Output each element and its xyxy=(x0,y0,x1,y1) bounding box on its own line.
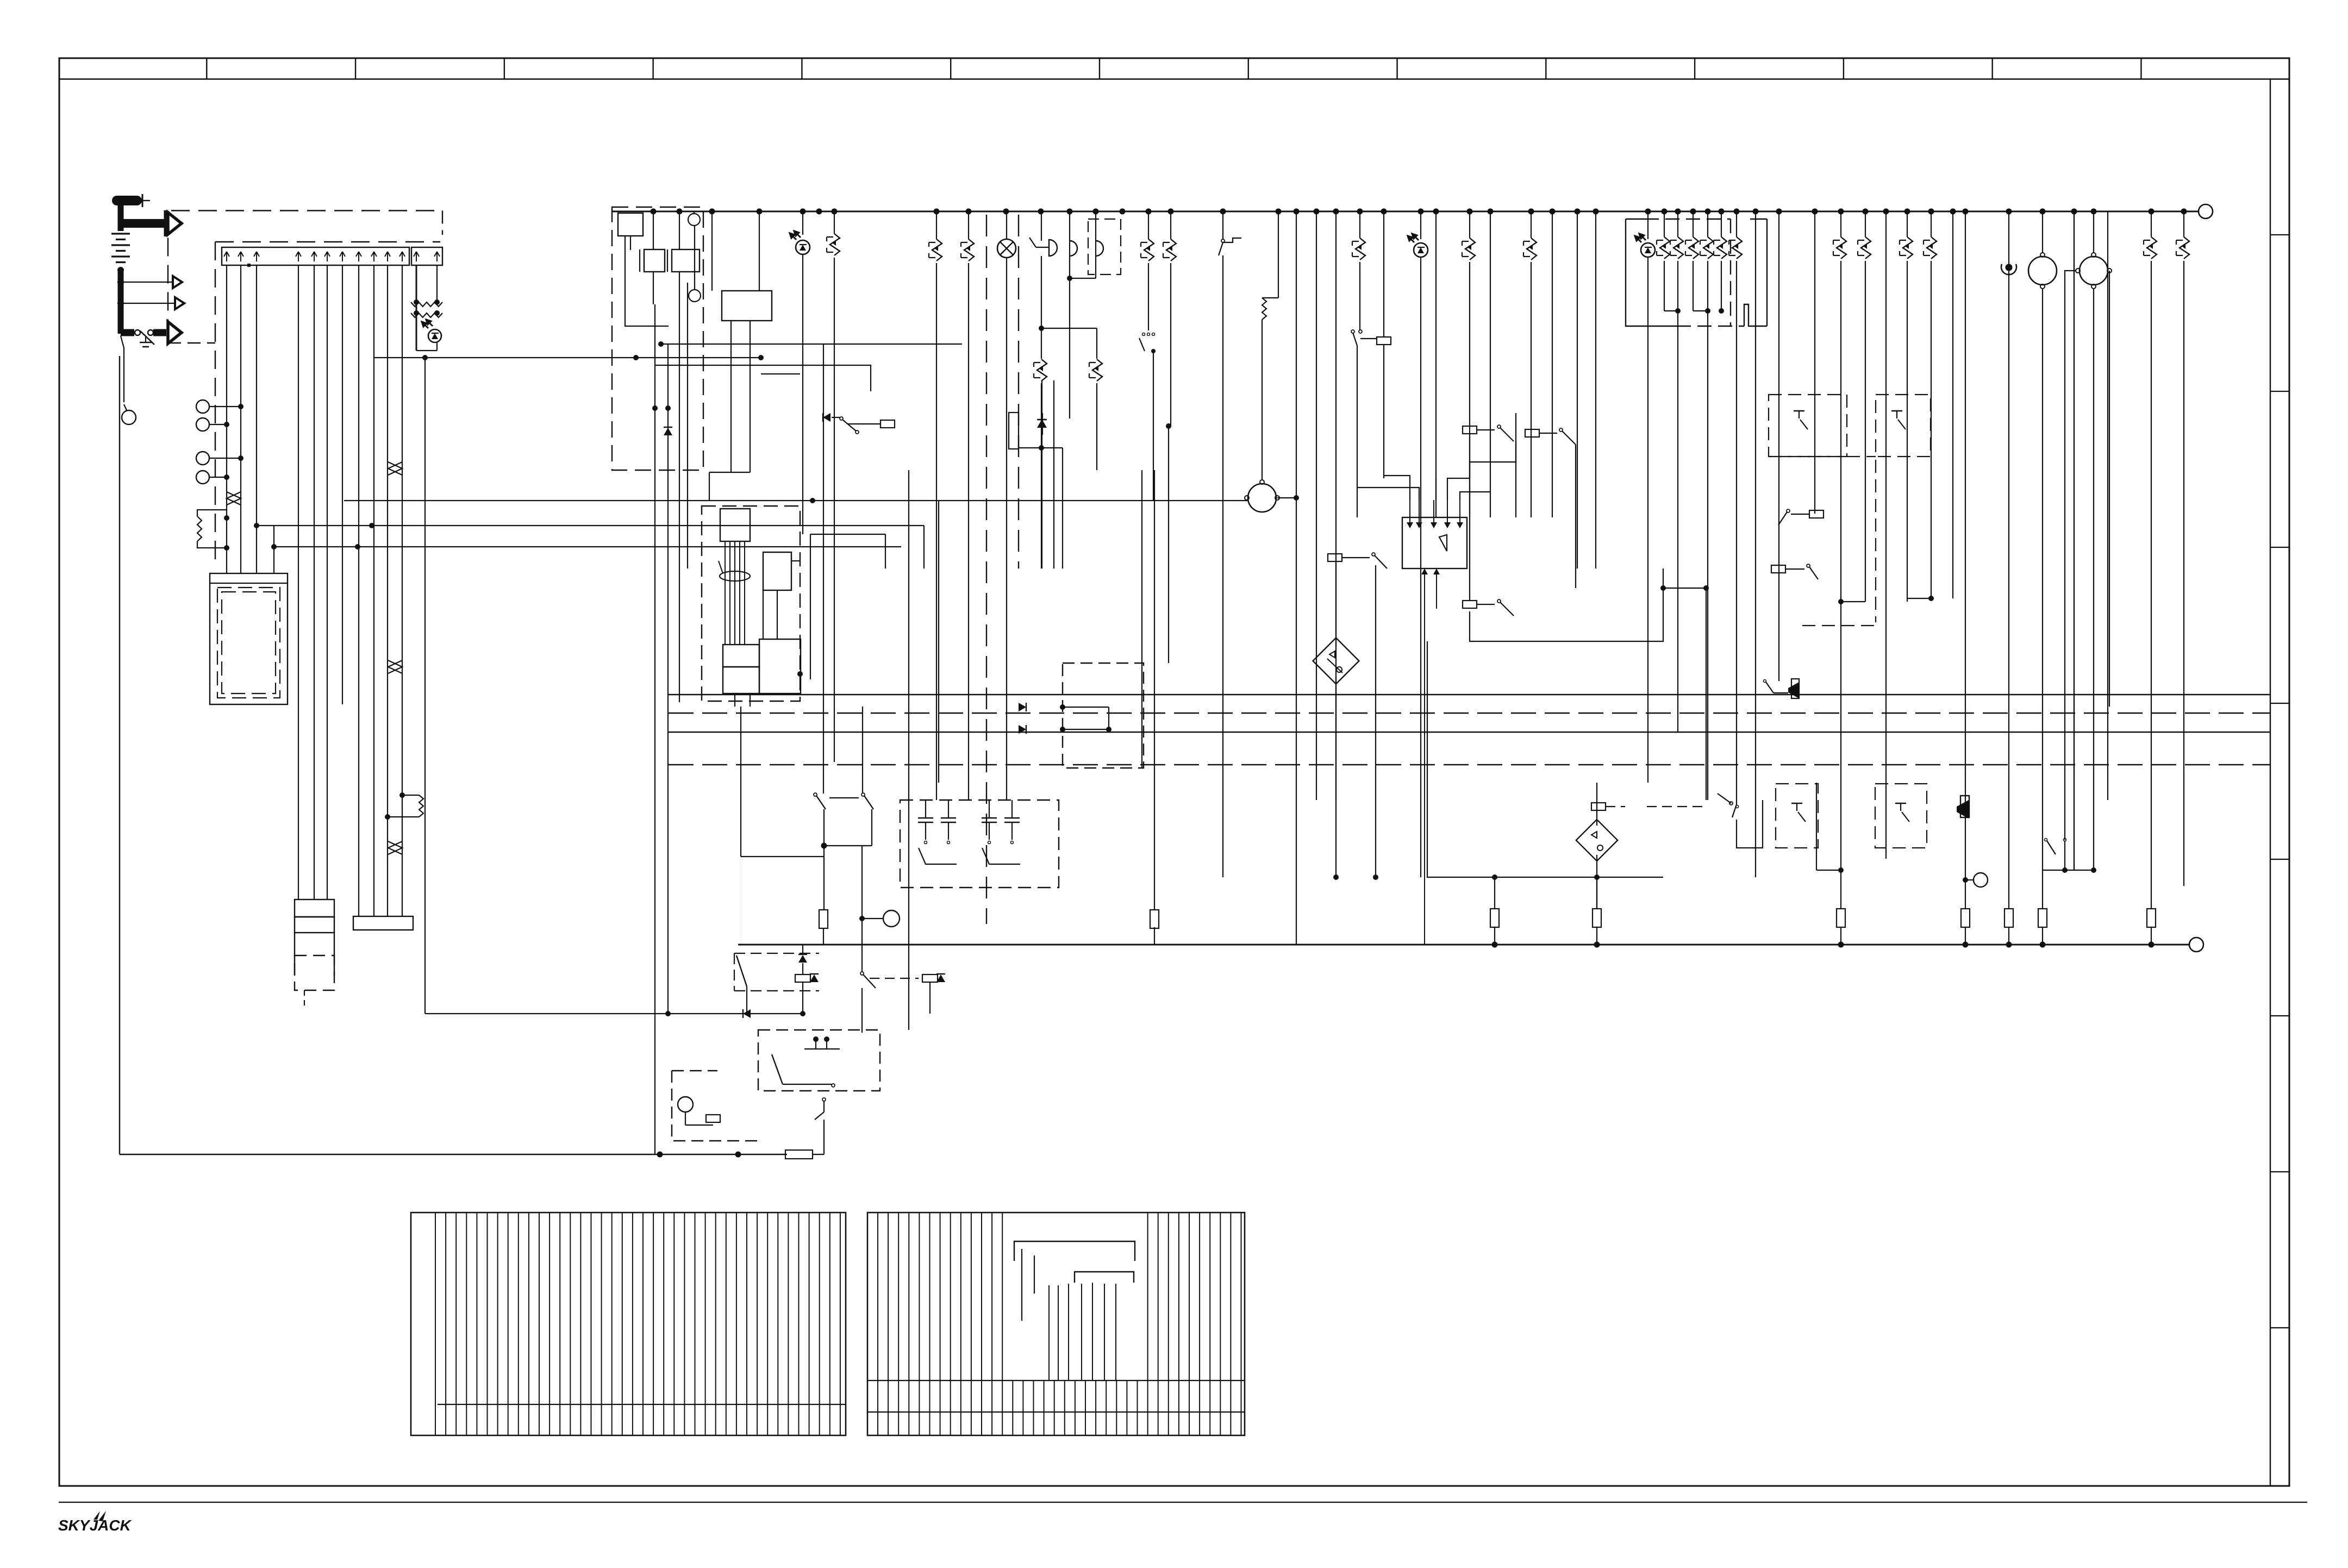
diode D4 wire xyxy=(1037,420,1046,428)
hour meter circle xyxy=(122,410,136,424)
breaker CB9 xyxy=(1865,211,1866,237)
bottom wire tail xyxy=(813,1154,824,1155)
right table bracket small xyxy=(1075,1272,1134,1283)
right table divider 1 xyxy=(867,1380,1245,1381)
negative/ground return bus xyxy=(738,944,2189,946)
relay K2 box xyxy=(672,249,700,272)
tilt sensor 1 stem xyxy=(1335,677,1337,877)
wire x3878 xyxy=(2107,211,2108,800)
breaker CB8 xyxy=(1840,211,1841,237)
motor M2 xyxy=(2093,211,2094,253)
breaker CB10 xyxy=(1907,211,1908,237)
motor M2 right tap xyxy=(2109,271,2110,707)
dashed box pressure switch C xyxy=(1776,784,1818,848)
controller ribbon wires xyxy=(725,541,726,645)
dashed enclosure: valve diode box xyxy=(1063,663,1144,768)
pilot symbol xyxy=(2008,211,2009,909)
battery terminal tick xyxy=(142,194,143,207)
valve diode 1 xyxy=(1063,707,1109,708)
relay coil K4 xyxy=(1463,426,1477,434)
junction on y921 xyxy=(810,498,815,503)
control feeds elbows xyxy=(1384,476,1410,500)
tilt 2 coil box xyxy=(1591,803,1606,810)
breaker CB4a xyxy=(1148,211,1149,239)
motor M1 xyxy=(2042,211,2043,253)
horn H1 xyxy=(1041,211,1042,241)
dashed enclosure: connector area inner xyxy=(215,241,440,242)
controller lower blocks xyxy=(723,645,759,667)
dashed enclosure: platform indicator cluster xyxy=(1626,219,1677,326)
tilt sensor wires xyxy=(1335,561,1337,646)
wire x2642 xyxy=(1435,211,1437,517)
gauge coil box xyxy=(706,1115,720,1122)
motor M3 (steer pump) xyxy=(1248,484,1276,512)
wire x3273 extend xyxy=(1778,569,1779,681)
twisted pair markers on pump bundle xyxy=(388,462,402,475)
lower relay network horizontal y1738 left part xyxy=(738,944,739,945)
motor M2 left elbow xyxy=(2065,271,2076,840)
midfield long verticals xyxy=(908,470,909,1030)
zone dashed vertical A xyxy=(986,215,987,924)
valve diode 2 xyxy=(1063,729,1109,730)
right table pins tall xyxy=(1021,1249,1022,1321)
dashed enclosure mid-left tall xyxy=(1769,456,1876,457)
half lamp 2 xyxy=(1095,211,1096,241)
sheet trim line below frame xyxy=(59,1502,2307,1503)
wire x3339 xyxy=(1814,211,1815,514)
relay K1 box xyxy=(644,249,665,272)
half lamp join wire xyxy=(1067,276,1072,281)
control box sail symbol xyxy=(1439,535,1447,551)
contact pair symbols xyxy=(925,800,926,818)
title header strip bottom line xyxy=(59,78,2289,80)
dashed box pressure switch A xyxy=(1769,395,1847,457)
loop: lower switch with coil xyxy=(1469,436,1470,601)
contact arm xyxy=(736,955,747,986)
controller side block xyxy=(763,552,791,590)
wire from disconnect to hour meter xyxy=(121,336,124,402)
relay cluster dashed outline xyxy=(734,953,819,954)
breaker CB2 xyxy=(936,211,937,239)
wire: second cross feed xyxy=(660,343,962,345)
contact box internal switches xyxy=(919,848,957,864)
left harness table xyxy=(411,1213,846,1435)
header cell dividers xyxy=(206,58,207,79)
switch with diode (brake) xyxy=(823,413,830,422)
battery negative thick bus xyxy=(118,272,124,334)
charge indicator LED xyxy=(428,329,441,342)
beacon circle right xyxy=(1974,873,1988,887)
wire x2742 xyxy=(1490,211,1491,517)
relay contacts top right xyxy=(1041,380,1042,569)
battery B1 to key switch thick feed with connector arrow xyxy=(121,219,166,228)
cluster drop wires xyxy=(1677,311,1678,732)
big relay box mid xyxy=(722,291,772,321)
wire x2902 xyxy=(1577,211,1578,569)
control box input arrows xyxy=(1409,500,1410,523)
center dashed enclosure (motor controller) xyxy=(702,506,800,701)
loop rectangle lower xyxy=(1470,569,1663,641)
boundary solid line 1 xyxy=(669,732,2270,733)
fuse drops right side xyxy=(1837,909,1845,927)
controller top block xyxy=(720,509,750,541)
branch wire y967 xyxy=(257,525,372,526)
wire x2936 xyxy=(1595,211,1596,569)
dashed lamp box xyxy=(1088,219,1121,274)
wire: lattice feed y672 xyxy=(654,365,871,391)
charger connector stack xyxy=(295,899,334,917)
cluster drop switch xyxy=(1732,804,1737,817)
terminal strip J2 short connector box xyxy=(411,247,442,265)
SKYJACK logo xyxy=(58,1517,132,1534)
wire y1865 with diode xyxy=(425,1013,803,1014)
module internal wires xyxy=(653,211,654,249)
contactor switch 2 xyxy=(861,793,865,796)
cross elbow wires K4K5 xyxy=(1470,441,1516,478)
breaker CB6 xyxy=(1469,211,1470,238)
wire x2546 xyxy=(1383,211,1384,337)
diode wire x1229 xyxy=(667,344,669,1014)
pressure switch group 1 xyxy=(1816,783,1817,870)
horn drop with breaker xyxy=(1039,326,1044,331)
battery tap wire to connector arrow 2 xyxy=(121,303,175,304)
fuse on charger line xyxy=(823,344,824,794)
battery tap wire to connector arrow 1 xyxy=(121,282,173,283)
wire: lattice feed y688 xyxy=(761,373,800,374)
wire bundle from J1 pins xyxy=(226,265,227,573)
beacon lamp xyxy=(1006,211,1007,239)
dashed link to valve coil xyxy=(870,978,919,979)
breaker CB3 xyxy=(968,211,969,239)
branch wire y1006 xyxy=(274,546,901,547)
wire: mid horizontal y921 right of enclosure xyxy=(1144,500,1247,501)
breaker CB7 xyxy=(1531,211,1532,238)
right harness table xyxy=(867,1213,1245,1435)
battery negative long wire down-left loop xyxy=(119,356,120,1154)
right table pins short xyxy=(1048,1285,1050,1380)
battery B1 cell stack xyxy=(111,233,130,234)
switch lower xyxy=(822,1098,826,1101)
relay coil K5 xyxy=(1525,429,1539,437)
right revision zone column xyxy=(2270,79,2271,1486)
horn symbol right xyxy=(1957,800,1969,819)
branch wire y921 xyxy=(344,500,1144,501)
fuse x3696 xyxy=(2004,909,2013,927)
diode up xyxy=(798,955,807,963)
narrow rect upper right cluster xyxy=(1009,413,1019,449)
boundary dash-dot line lower xyxy=(669,764,2270,765)
zone dashed vertical B xyxy=(1018,215,1019,569)
LED D3 xyxy=(1420,211,1421,239)
left harness table divider xyxy=(438,1404,846,1405)
pump contactor box xyxy=(210,573,288,704)
dashed enclosure: ground control box outer xyxy=(171,210,442,211)
joystick dashed box xyxy=(758,1030,880,1091)
enclosure box: chassis module xyxy=(1427,641,1663,877)
gauge circle xyxy=(678,1097,693,1112)
selector switch cluster xyxy=(1148,322,1149,330)
switch mid xyxy=(860,972,864,975)
wire y968 extension xyxy=(923,526,925,569)
wire x3230 long xyxy=(1755,211,1756,877)
limit switch S3 xyxy=(1222,211,1223,239)
controller wires to right xyxy=(791,560,800,561)
relay coil K3 with switch xyxy=(1328,554,1342,561)
wire: ground-control feed xyxy=(374,357,761,358)
breaker CB1 xyxy=(834,211,835,234)
bottom return wire xyxy=(120,1154,787,1155)
pressure switch B xyxy=(1891,410,1902,411)
control box bottom arrows xyxy=(1424,569,1425,574)
ground bus left riser xyxy=(740,857,741,945)
right table divider 2 xyxy=(867,1411,1245,1413)
wire: enclosure right side x2101 xyxy=(1141,470,1142,768)
diode D5 xyxy=(1042,413,1043,435)
connector tails xyxy=(304,990,305,1007)
lower-left dashed box with gauge xyxy=(672,1071,758,1141)
boundary dash-dot line upper xyxy=(669,713,2270,714)
main positive bus xyxy=(612,211,2199,213)
fuse x3758 xyxy=(2038,909,2047,927)
sender circles (level sensors) xyxy=(196,400,209,413)
dashed box pressure switch D xyxy=(1875,784,1927,848)
wire x3470 xyxy=(1885,211,1887,859)
controller coil ellipse xyxy=(720,571,750,581)
wire x3273 xyxy=(1778,211,1779,569)
aux circle bottom xyxy=(689,290,701,302)
wire x2458 xyxy=(1335,211,1337,800)
breaker CB5 xyxy=(1359,211,1360,238)
wire x3593 xyxy=(1952,211,1953,598)
contact blades above network xyxy=(2045,839,2047,841)
dashed box pressure switch B xyxy=(1876,395,1931,457)
dashed contact box upper right xyxy=(900,800,1059,888)
module lower wires xyxy=(730,321,732,472)
wire: left loop vertical x782 xyxy=(424,358,426,1014)
horn switch xyxy=(1764,680,1766,683)
breaker tails joined xyxy=(1664,261,1665,311)
valve box wires xyxy=(1108,707,1109,729)
tilt sensor diamond 2 xyxy=(1576,820,1618,861)
pressure resistor loop xyxy=(197,516,202,541)
relay coil K7 xyxy=(1771,565,1785,573)
fuse bottom line xyxy=(657,1152,663,1158)
resistor at pump connector xyxy=(402,795,419,796)
aux circle top xyxy=(688,214,700,226)
contactor switch 1 xyxy=(814,793,817,796)
ground bus fuses and taps xyxy=(1492,942,1498,948)
platform breakers row xyxy=(1664,211,1665,237)
wire x3816 xyxy=(2074,211,2075,870)
diode beside coil xyxy=(810,974,819,982)
breaker CB12 xyxy=(2151,211,2152,237)
LED branch bottom wire xyxy=(416,350,437,351)
platform LED xyxy=(1647,211,1648,239)
battery disconnect switch (thick) with connector arrow xyxy=(121,329,134,336)
wire x2385 xyxy=(1296,211,1297,945)
bus junction dots xyxy=(651,209,657,215)
wire x2422 xyxy=(1316,211,1317,800)
wire x2352 with resistor to ground xyxy=(1278,211,1279,298)
relay coil K6 xyxy=(1809,510,1824,518)
tilt 2 stem xyxy=(1596,783,1597,826)
control module box xyxy=(1402,517,1467,569)
twisted pair marker xyxy=(227,492,241,505)
pressure switch C xyxy=(1791,803,1802,804)
connector pin arrows xyxy=(226,252,227,261)
pump motor connector bar xyxy=(353,916,413,930)
bus end terminal xyxy=(2199,204,2213,218)
right table bracket large xyxy=(1014,1241,1135,1261)
meter circle with tap xyxy=(883,910,900,927)
horn H2 xyxy=(1788,682,1799,698)
power module inner rect xyxy=(618,213,643,236)
coil box small xyxy=(795,974,810,982)
pressure switch D xyxy=(1895,803,1906,804)
breaker CB11 xyxy=(1931,211,1932,237)
wire x3616 horn feed xyxy=(1965,211,1966,909)
breaker CB4 xyxy=(1170,211,1171,239)
wire x2856 xyxy=(1552,211,1553,517)
contactor wires above ground bus xyxy=(740,707,741,857)
wire x1202 below module xyxy=(654,304,655,1154)
contact network y1601 xyxy=(2043,870,2094,871)
terminal strip J1 long connector box xyxy=(222,247,409,265)
LED indicator D2 xyxy=(802,211,803,235)
joystick contacts xyxy=(813,1036,819,1042)
half lamp 1 xyxy=(1069,211,1070,241)
mid cross wires right side xyxy=(885,534,886,569)
breaker CB13 xyxy=(2183,211,2184,237)
switch S5 to coil xyxy=(1351,330,1354,333)
tilt sensor diamond 1 xyxy=(1313,638,1359,684)
charge indicator resistors R1 R2 xyxy=(416,265,417,351)
boundary solid line 0 xyxy=(669,694,2270,695)
dashed enclosure: power module xyxy=(612,207,703,470)
pressure switch A xyxy=(1794,410,1804,411)
ground bus end terminal xyxy=(2189,938,2203,952)
battery B1 positive cable (thick) xyxy=(117,196,137,205)
